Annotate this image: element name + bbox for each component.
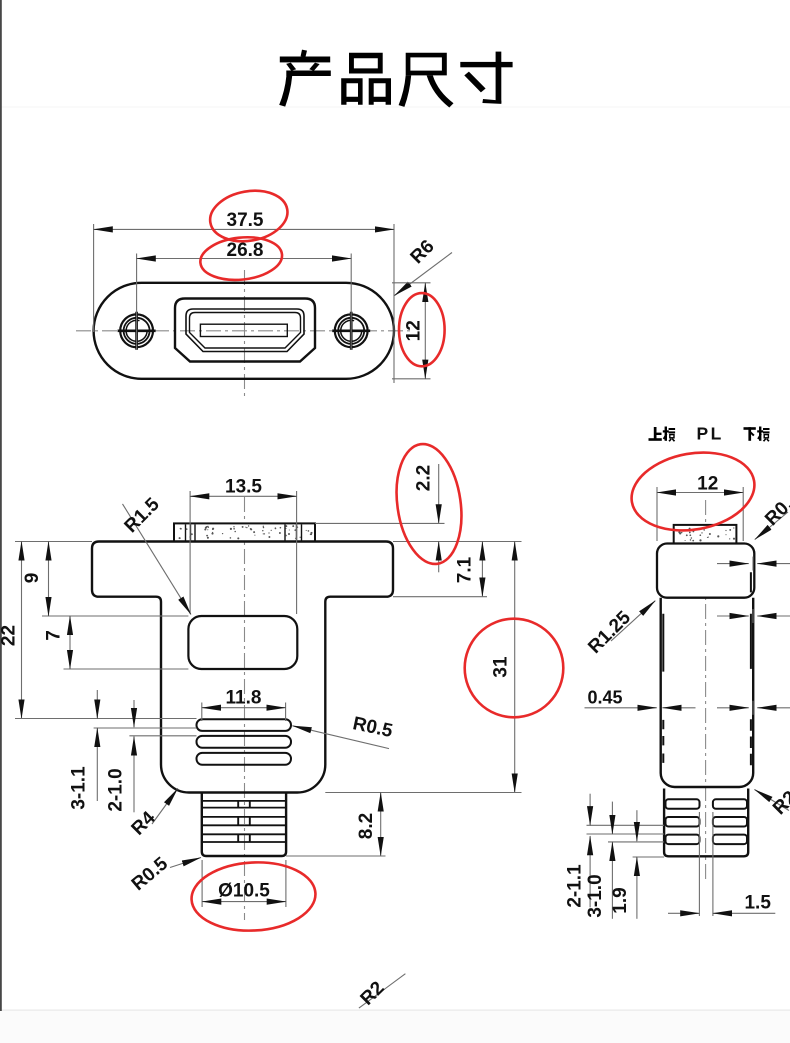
screw hole left <box>118 312 156 350</box>
char 产 <box>279 50 331 107</box>
ext slot1 top long <box>15 718 197 720</box>
svg-text:37.5: 37.5 <box>227 210 264 231</box>
label R truncated bottom leader <box>755 790 790 811</box>
svg-text:1.9: 1.9 <box>610 887 631 913</box>
ext flange bottom right <box>393 596 487 598</box>
svg-text:8.2: 8.2 <box>356 813 377 839</box>
red circle 31 <box>465 619 564 718</box>
ext slot1 bottom <box>94 727 197 729</box>
dim 11.8 ext lines <box>202 703 286 722</box>
red ellipse 2.2 <box>389 440 468 568</box>
dim 22 line <box>21 542 23 719</box>
label 模(1) strokes <box>663 427 675 442</box>
svg-text:PL: PL <box>697 424 724 444</box>
wall dim row2 <box>717 609 790 623</box>
dim 7 line <box>69 616 71 669</box>
dim 3-1.1 arrows <box>96 690 98 719</box>
screw hole right <box>332 312 370 350</box>
dim 1.5 arrows <box>668 912 699 914</box>
red ellipse 26.8 <box>198 233 284 283</box>
svg-text:3-1.1: 3-1.1 <box>69 766 90 810</box>
dim 2.2 lower arrow <box>438 542 440 573</box>
cap inner lines <box>186 525 302 541</box>
char 尺 <box>399 53 454 108</box>
barrel rib bars left column <box>666 799 700 809</box>
svg-text:7.1: 7.1 <box>455 556 476 583</box>
svg-text:11.8: 11.8 <box>226 688 262 709</box>
svg-text:12: 12 <box>697 474 718 495</box>
lower body section <box>661 598 754 787</box>
label R2 leader <box>359 974 406 1008</box>
dim 13.5 line <box>190 495 297 497</box>
svg-text:31: 31 <box>491 656 512 678</box>
inner tab R1.5 <box>188 616 297 669</box>
dim dia10.5 line <box>202 901 286 903</box>
label 模(2) strokes <box>757 427 769 442</box>
label R6 leader <box>395 253 453 296</box>
dim 12 ext lines <box>657 487 743 541</box>
dim 26.8 line <box>137 258 352 260</box>
dim 37.5 line <box>94 228 394 230</box>
char 寸 <box>460 52 512 104</box>
ext cap top right <box>315 522 445 524</box>
svg-text:13.5: 13.5 <box>225 477 262 498</box>
barrel outline <box>202 793 286 857</box>
TITLE 产品尺寸 (drawn strokes) <box>279 50 512 108</box>
svg-text:26.8: 26.8 <box>227 240 264 261</box>
bottom section background <box>0 1010 790 1043</box>
svg-text:2-1.0: 2-1.0 <box>106 768 127 811</box>
HDMI housing outer <box>175 299 315 362</box>
bottom seam line <box>0 1010 790 1011</box>
barrel rib lines <box>202 801 286 842</box>
vertical centerline <box>244 497 246 920</box>
dim dia10.5 ext lines <box>202 860 286 907</box>
label R1.5 leader <box>123 504 191 615</box>
vent slot 2 <box>197 736 292 748</box>
flange and body outline <box>92 542 393 793</box>
ext body bottom right <box>325 792 521 794</box>
dim 11.8 line <box>202 707 286 709</box>
dim 26.8 extension lines <box>137 254 352 351</box>
svg-text:9: 9 <box>22 573 43 584</box>
ext flange top left <box>15 541 92 543</box>
label R4 leader <box>152 789 178 825</box>
centerline vertical <box>244 270 246 396</box>
dim 3-1.0 arrows <box>611 802 613 834</box>
svg-text:12: 12 <box>404 320 425 341</box>
dim 7.1 line <box>481 542 483 597</box>
dim 12 extension lines <box>392 283 431 379</box>
cap speckled <box>674 525 737 544</box>
dim 37.5 extension lines <box>94 224 394 383</box>
ext tab bottom <box>64 668 189 670</box>
wall dim row1 <box>717 557 790 571</box>
dim 2-1.0 arrows <box>133 700 135 727</box>
red ellipse 37.5 <box>206 185 291 247</box>
label R0 truncated leader <box>755 512 788 540</box>
label R1.25 leader <box>611 601 655 641</box>
red ellipse 12 right view <box>625 443 760 539</box>
ext flange top right <box>393 541 522 543</box>
dim 12 line <box>657 492 743 494</box>
left page border <box>0 0 2 1011</box>
ext barrel bottom right <box>286 855 385 857</box>
faint seam line <box>0 107 790 108</box>
left edge tick marks <box>662 614 664 763</box>
svg-text:2-1.1: 2-1.1 <box>565 864 586 908</box>
dim 0.45 left arrows <box>585 707 696 709</box>
ext rib lines left <box>587 825 665 857</box>
svg-text:Ø10.5: Ø10.5 <box>218 881 270 902</box>
dim 13.5 extension lines <box>190 491 297 614</box>
HDMI shell inner D <box>190 313 301 349</box>
dim 1.5 ext lines <box>699 812 713 916</box>
cap speckle dots <box>179 525 313 539</box>
red ellipse 12 top view <box>399 293 445 366</box>
red ellipse dia10.5 <box>190 859 317 933</box>
dim 2-1.1 arrows <box>589 794 591 826</box>
ext tab top <box>42 615 188 617</box>
svg-text:0.45: 0.45 <box>587 688 622 708</box>
svg-text:22: 22 <box>0 625 20 646</box>
vent slot 3 <box>197 753 292 765</box>
svg-text:1.5: 1.5 <box>744 893 771 914</box>
vent slot 1 <box>197 719 292 731</box>
char 品 <box>341 53 391 105</box>
right edge tick marks <box>750 572 752 765</box>
stadium plate outline <box>94 283 394 379</box>
label R0.5 slots leader <box>293 726 390 749</box>
shell cap (speckled) <box>174 523 315 541</box>
HDMI tongue slot <box>200 324 287 336</box>
dim 12 line <box>424 283 426 379</box>
dim 31 line <box>514 542 516 793</box>
centerline horizontal <box>76 330 412 332</box>
HDMI shell outer D <box>186 309 304 352</box>
dim 2.2 upper line with down arrow <box>438 464 440 523</box>
vertical centerline <box>705 500 707 879</box>
barrel rib bars right column <box>713 799 747 809</box>
dim 9 line <box>48 542 50 617</box>
dim 1.9 arrows <box>636 810 638 841</box>
label R0.5 bottom leader <box>170 858 201 868</box>
barrel side outline <box>664 789 748 857</box>
barrel center notches <box>238 801 250 842</box>
upper mold section <box>657 544 754 598</box>
svg-text:3-1.0: 3-1.0 <box>585 874 606 917</box>
dim 8.2 line <box>380 793 382 857</box>
ext slot2 top <box>129 735 196 737</box>
cap speckles <box>678 527 735 541</box>
wall dim row3 right <box>717 701 790 715</box>
svg-text:7: 7 <box>44 630 65 641</box>
label 上模 strokes <box>649 427 662 441</box>
label 下 strokes <box>744 427 756 441</box>
svg-text:2.2: 2.2 <box>414 465 435 491</box>
